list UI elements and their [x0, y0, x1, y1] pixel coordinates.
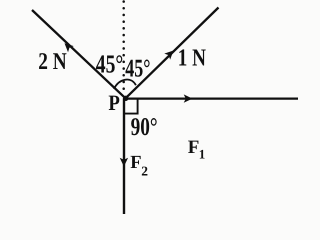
svg-text:F: F	[188, 137, 200, 158]
svg-text:45°: 45°	[125, 53, 150, 82]
svg-text:1: 1	[199, 146, 206, 161]
svg-text:2 N: 2 N	[38, 49, 67, 75]
svg-text:90°: 90°	[131, 112, 158, 141]
svg-text:P: P	[108, 90, 120, 115]
svg-text:45°: 45°	[96, 49, 124, 78]
svg-text:2: 2	[141, 164, 148, 179]
svg-text:F: F	[130, 153, 141, 173]
svg-text:1 N: 1 N	[178, 45, 206, 72]
